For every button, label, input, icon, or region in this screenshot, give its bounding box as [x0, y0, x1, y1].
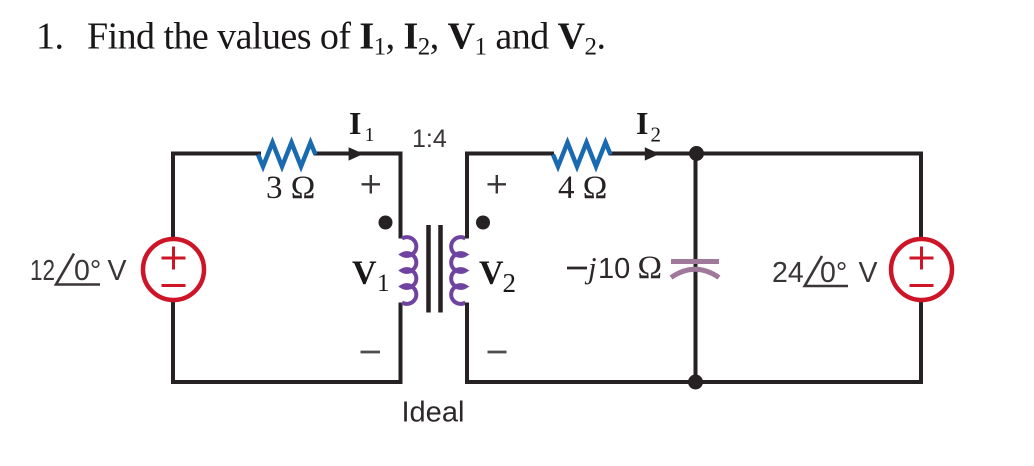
plus sign of V1 [362, 175, 381, 194]
wire: right-loop top, right of resistor R2 [609, 152, 921, 156]
voltage source Vs2 24V circle [891, 239, 952, 300]
svg-text:2: 2 [651, 123, 662, 147]
transformer dot primary [379, 216, 393, 230]
svg-text:Ω: Ω [638, 250, 663, 286]
source Vs2 plus [910, 247, 934, 270]
svg-text:V: V [108, 255, 127, 287]
current arrow I2 [645, 147, 660, 160]
svg-text:Ideal: Ideal [402, 397, 465, 429]
label -j10 ohm [567, 267, 587, 270]
transformer dot secondary [476, 216, 490, 230]
title [36, 16, 605, 61]
voltage source Vs1 12V circle [143, 239, 204, 300]
svg-text:2: 2 [503, 268, 517, 298]
wire: right-loop bottom [465, 380, 923, 384]
plus sign of V2 [488, 175, 507, 194]
wire: right-loop top, left of resistor R2 [467, 152, 554, 156]
transformer secondary coil L2 [451, 237, 465, 304]
wire: left-loop top, left of resistor R1 [173, 152, 261, 156]
svg-text:I: I [349, 105, 361, 141]
wire: left-loop bottom [171, 380, 403, 384]
svg-text:10: 10 [598, 253, 630, 285]
svg-text:3 Ω: 3 Ω [266, 170, 315, 206]
label 12 angle 0 V [30, 255, 127, 287]
svg-text:0°: 0° [820, 257, 847, 289]
svg-text:I: I [636, 105, 648, 141]
capacitor C1 top plate [671, 259, 719, 264]
angle symbol for 24V [805, 256, 848, 286]
svg-text:12: 12 [30, 255, 55, 287]
wire: transformer primary vertical upper [399, 152, 403, 239]
svg-text:1:4: 1:4 [412, 125, 447, 153]
resistor R1 3ohm zigzag [258, 143, 316, 167]
wire: transformer secondary vertical lower [465, 303, 469, 385]
source Vs2 minus [910, 284, 934, 287]
svg-text:24: 24 [772, 257, 804, 289]
angle symbol for 12V [56, 254, 100, 285]
transformer core bar left [426, 225, 431, 313]
svg-text:1: 1 [365, 124, 375, 146]
svg-text:V: V [479, 255, 504, 292]
label 24 angle 0 V [772, 257, 878, 289]
wire: transformer primary vertical lower [399, 303, 403, 385]
svg-text:4 Ω: 4 Ω [558, 170, 607, 206]
svg-text:1.: 1. [36, 16, 63, 58]
source Vs1 minus [162, 284, 186, 287]
wire: left vertical below source Vs1 [171, 300, 175, 384]
minus sign of V2 [488, 351, 507, 354]
wire: left vertical above source Vs1 [171, 152, 175, 240]
wire: capacitor branch vertical [694, 154, 698, 383]
wire: right vertical below source Vs2 [919, 300, 923, 384]
capacitor C1 bottom plate (curved) [671, 269, 719, 277]
junction node top [689, 146, 704, 161]
transformer core bar right [438, 225, 443, 313]
svg-text:Find the values of I1, I2, V1: Find the values of I1, I2, V1 and V2. [87, 16, 605, 61]
svg-text:0°: 0° [74, 255, 101, 287]
svg-text:1: 1 [377, 270, 390, 297]
current arrow I1 [349, 147, 364, 160]
source Vs1 plus [162, 247, 186, 270]
svg-text:V: V [859, 257, 878, 289]
wire: right vertical above source Vs2 [919, 152, 923, 240]
junction node bottom [688, 375, 703, 390]
resistor R2 4ohm zigzag [553, 143, 611, 167]
transformer primary coil L1 [402, 237, 416, 304]
wire: transformer secondary vertical upper [465, 152, 469, 239]
minus sign of V1 [361, 351, 381, 354]
wire: left-loop top, right of resistor R1 to transformer primary [314, 152, 401, 156]
svg-text:V: V [352, 255, 377, 292]
